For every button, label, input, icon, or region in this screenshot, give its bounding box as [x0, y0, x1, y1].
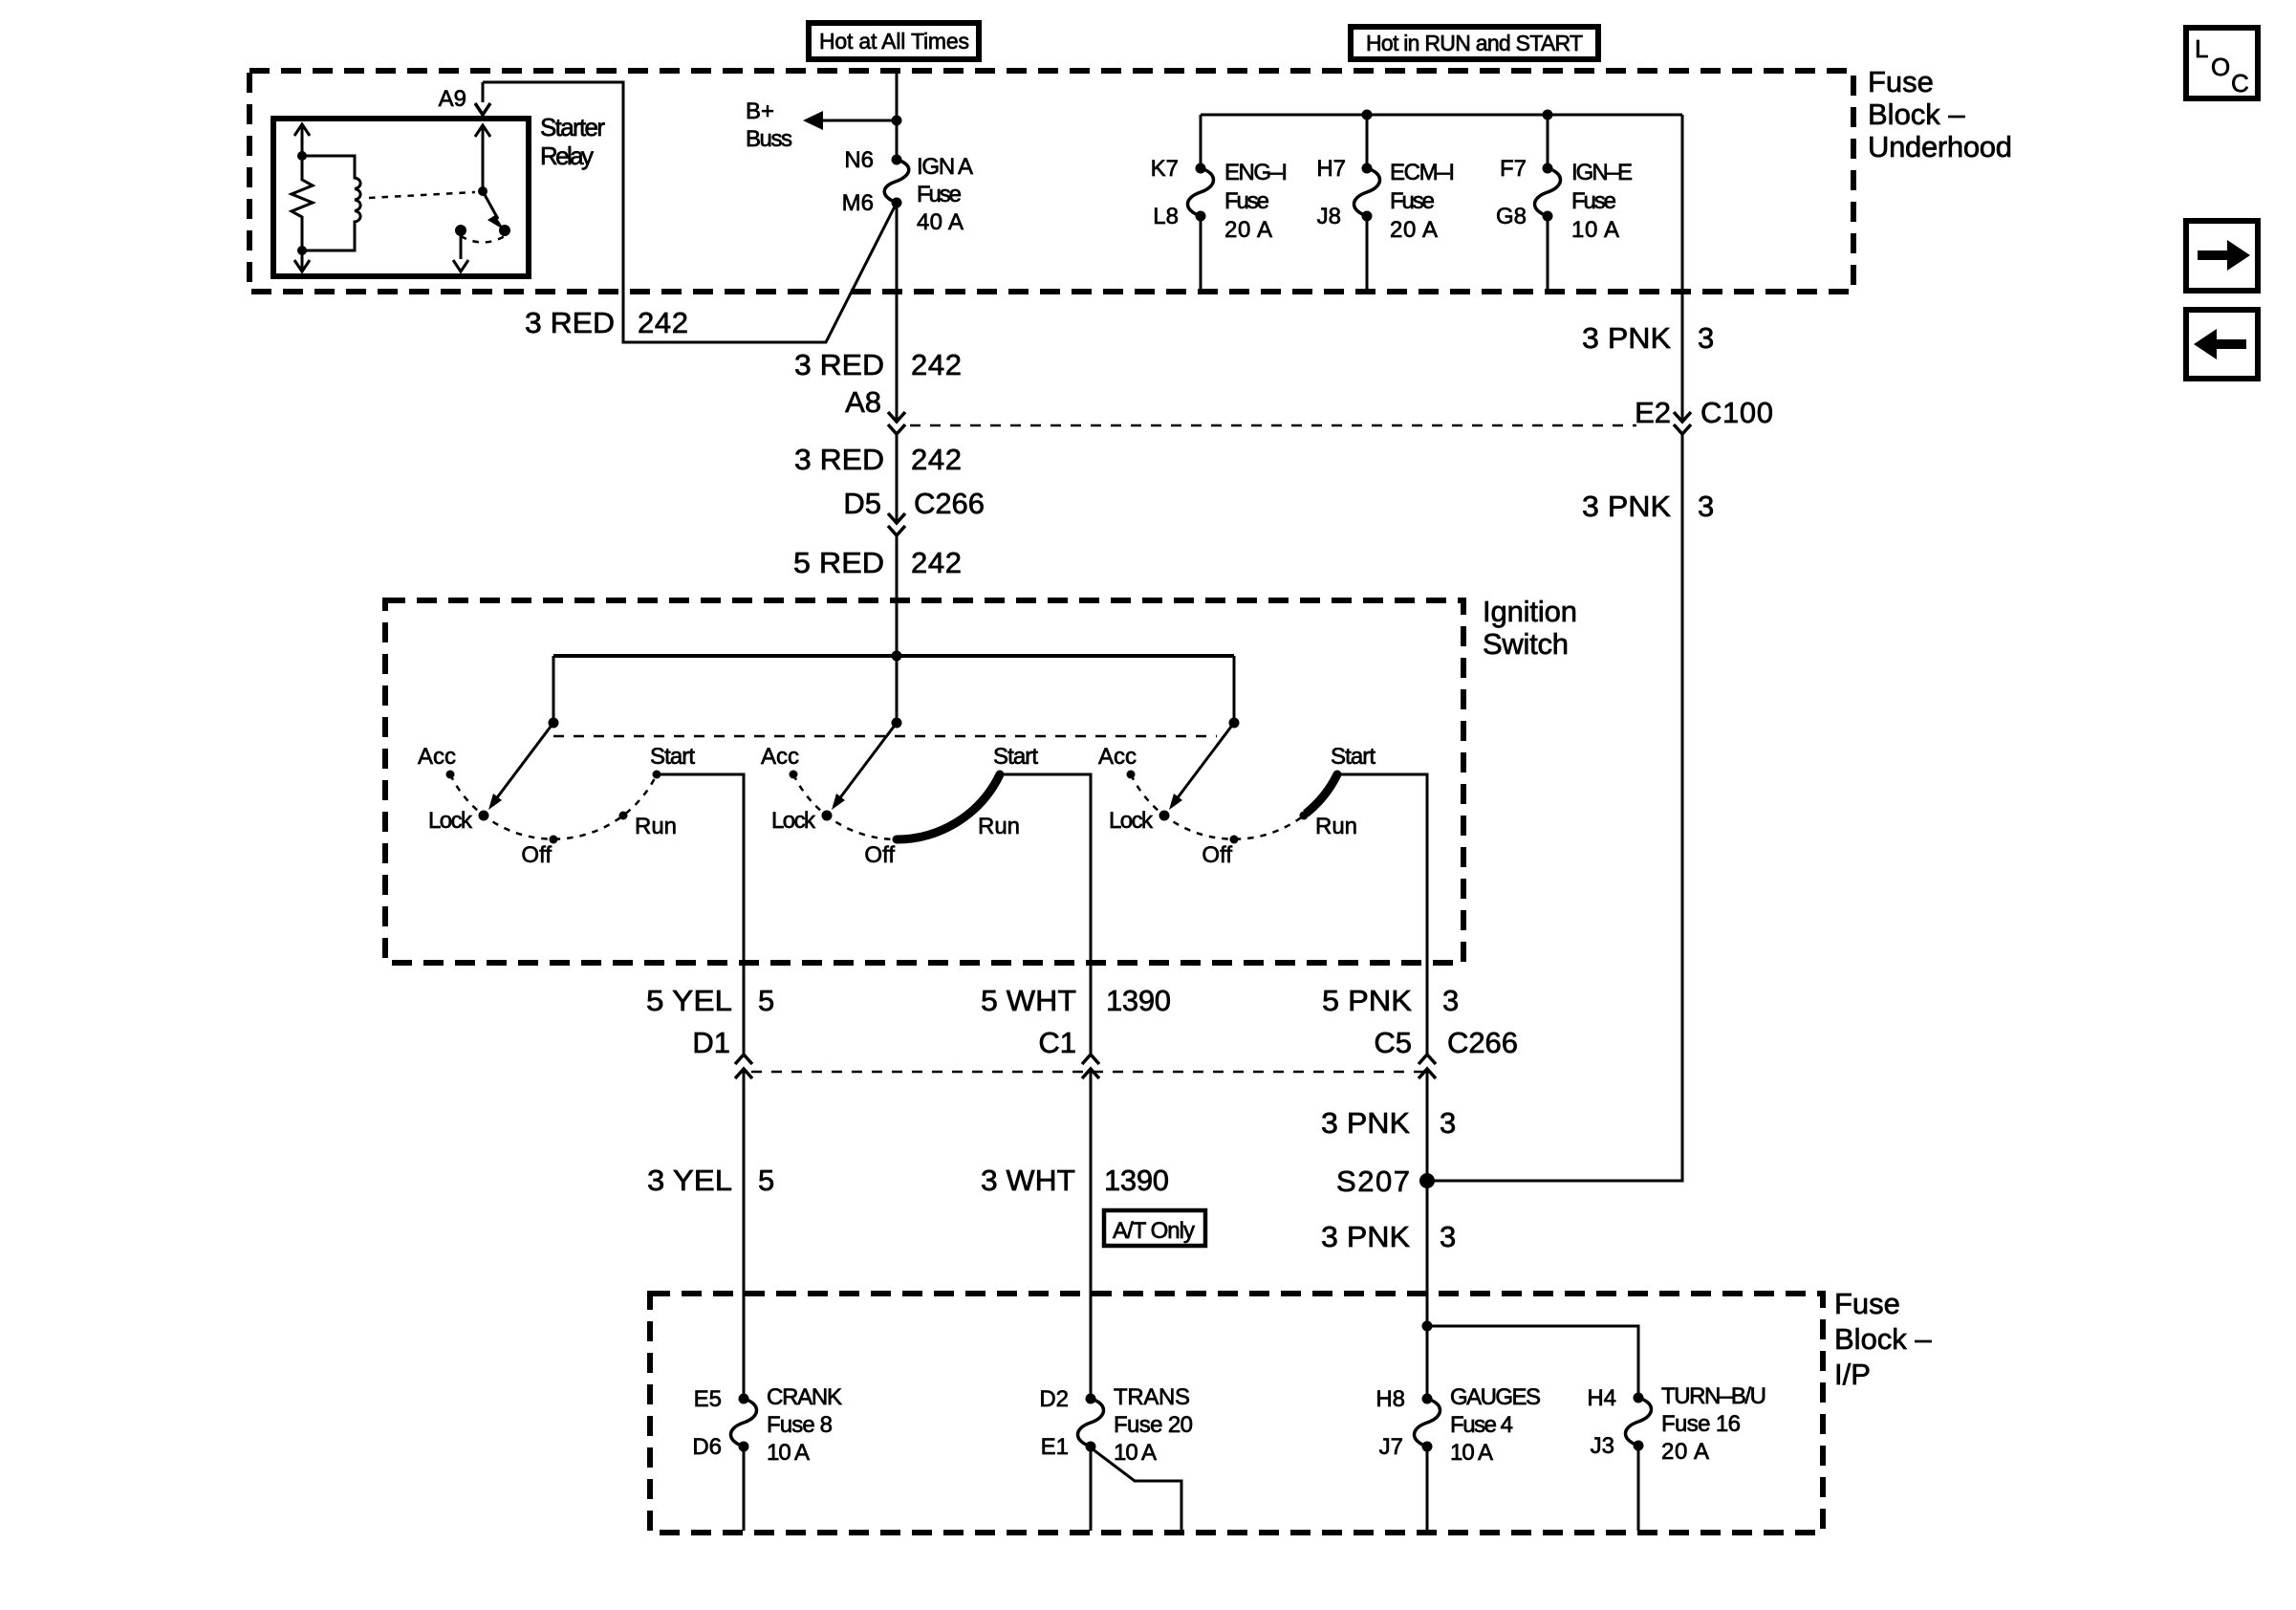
svg-text:3 RED: 3 RED: [525, 306, 615, 339]
svg-text:J8: J8: [1317, 204, 1341, 229]
fuse TURN-B/U Fuse 16: [1587, 1383, 1766, 1531]
wire C1 to trans fuse: [1090, 1069, 1093, 1399]
svg-text:C266: C266: [914, 487, 985, 520]
svg-text:N6: N6: [844, 147, 874, 173]
svg-text:TRANS: TRANS: [1114, 1384, 1190, 1410]
switch 3 closed contact thick arc: [1306, 774, 1337, 814]
svg-text:Fuse: Fuse: [1834, 1287, 1900, 1320]
relay actuation dashed link: [369, 192, 475, 198]
wire into ignition switch: [896, 535, 899, 656]
node top: [297, 151, 307, 161]
wire label 3 PNK 3: [1321, 1220, 1456, 1253]
svg-text:Start: Start: [650, 744, 695, 770]
svg-text:3 RED: 3 RED: [794, 348, 884, 381]
svg-text:20 A: 20 A: [1224, 217, 1272, 243]
wire label 3 PNK 3: [1582, 490, 1714, 523]
switch 2 contacts: [761, 744, 1038, 868]
switch pole 1 pivot: [549, 718, 559, 729]
right arrow page icon: [2186, 221, 2258, 291]
node bus H7: [1362, 110, 1373, 120]
svg-text:M6: M6: [842, 190, 874, 216]
fuse TRANS Fuse 20: [1039, 1384, 1193, 1531]
svg-text:B+: B+: [746, 98, 774, 124]
bus drop left: [552, 656, 555, 723]
svg-text:IGN–E: IGN–E: [1571, 160, 1633, 185]
svg-text:5: 5: [758, 984, 774, 1017]
svg-text:1390: 1390: [1104, 1164, 1169, 1197]
node bus center: [892, 651, 902, 662]
switch 2 closed contact thick arc: [897, 774, 1000, 839]
svg-text:CRANK: CRANK: [767, 1384, 842, 1410]
svg-text:20 A: 20 A: [1390, 217, 1438, 243]
svg-text:5 WHT: 5 WHT: [981, 984, 1076, 1017]
svg-text:Off: Off: [864, 842, 895, 868]
svg-text:Fuse 8: Fuse 8: [767, 1412, 833, 1438]
relay coil left lead with arrows: [294, 124, 310, 272]
wire label 5 YEL 5: [646, 984, 774, 1017]
bus drop center: [896, 656, 899, 723]
wire label 3 PNK 3: [1321, 1106, 1456, 1140]
svg-text:A9: A9: [439, 86, 466, 112]
svg-text:C: C: [2231, 69, 2249, 98]
LOC page icon: [2186, 28, 2258, 98]
svg-text:Acc: Acc: [761, 744, 799, 770]
fuse CRANK Fuse 8: [692, 1384, 842, 1531]
svg-text:F7: F7: [1500, 156, 1527, 182]
switch pole 2 pivot: [892, 718, 902, 729]
svg-text:D2: D2: [1039, 1386, 1069, 1412]
svg-text:242: 242: [911, 443, 962, 476]
svg-text:Fuse: Fuse: [1868, 65, 1934, 98]
svg-text:3: 3: [1440, 1106, 1456, 1140]
svg-text:242: 242: [911, 546, 962, 579]
svg-text:Underhood: Underhood: [1868, 130, 2012, 163]
switch 3 start wire: [1337, 774, 1427, 1055]
svg-text:A8: A8: [845, 385, 881, 419]
connector C100 A8: [845, 385, 905, 434]
wire A9 to splice: [483, 82, 896, 342]
svg-text:C100: C100: [1700, 396, 1773, 429]
wire label 3 RED 242 (A9 circuit): [525, 306, 688, 339]
svg-text:242: 242: [911, 348, 962, 381]
svg-text:3 YEL: 3 YEL: [647, 1164, 732, 1197]
connector C266 D1: [692, 1026, 752, 1078]
fuse ENG-I 20 A: [1151, 115, 1288, 290]
B+ Buss arrow: [746, 98, 902, 152]
svg-text:S207: S207: [1336, 1164, 1410, 1198]
svg-text:Hot in RUN and START: Hot in RUN and START: [1366, 31, 1583, 55]
wire gauges feed: [1422, 1321, 1433, 1332]
wire to turn fuse: [1427, 1326, 1638, 1398]
svg-text:242: 242: [638, 306, 688, 339]
svg-text:10 A: 10 A: [1571, 217, 1619, 243]
svg-text:Ignition: Ignition: [1483, 595, 1577, 628]
switch pole 2 arm arrow: [832, 723, 897, 810]
svg-text:Off: Off: [1202, 842, 1232, 868]
svg-text:10 A: 10 A: [1114, 1440, 1157, 1466]
svg-text:3 RED: 3 RED: [794, 443, 884, 476]
dashed gang link: [553, 735, 1217, 738]
svg-text:C1: C1: [1038, 1026, 1076, 1059]
wire label 3 PNK 3: [1582, 321, 1714, 355]
fuse IGN-E 10 A: [1496, 115, 1633, 290]
svg-text:Start: Start: [993, 744, 1038, 770]
svg-text:I/P: I/P: [1834, 1358, 1871, 1391]
switch 1 contacts: [418, 744, 695, 868]
svg-text:3: 3: [1698, 321, 1714, 355]
Fuse Block Underhood dashed box: [249, 71, 1853, 292]
svg-text:J7: J7: [1379, 1434, 1403, 1460]
svg-text:H7: H7: [1316, 156, 1346, 182]
svg-text:D1: D1: [692, 1026, 730, 1059]
wire C5 to splice S207: [1426, 1069, 1429, 1399]
switch 3 dashed travel arc: [1131, 774, 1304, 839]
svg-text:Fuse 16: Fuse 16: [1661, 1411, 1741, 1437]
relay common contact: [453, 225, 505, 272]
node bus F7: [1543, 110, 1553, 120]
label Starter Relay: [540, 113, 605, 170]
switch 3 contacts: [1098, 744, 1375, 868]
switch 2 dashed travel arc: [793, 774, 897, 839]
svg-text:3 PNK: 3 PNK: [1582, 321, 1671, 355]
svg-text:20 A: 20 A: [1661, 1439, 1709, 1465]
wire 3 PNK right side down: [1681, 115, 1684, 421]
svg-text:Fuse 20: Fuse 20: [1114, 1412, 1193, 1438]
svg-text:Fuse: Fuse: [1571, 188, 1616, 214]
svg-text:Fuse: Fuse: [917, 182, 962, 207]
dashed connector line C100: [910, 424, 1636, 427]
wire below A8: [896, 434, 899, 523]
svg-text:Start: Start: [1331, 744, 1375, 770]
svg-text:Block –: Block –: [1868, 98, 1965, 131]
wire trans fuse jog: [1092, 1448, 1181, 1531]
fuse ECM-I 20 A: [1316, 115, 1455, 290]
svg-text:TURN–B/U: TURN–B/U: [1661, 1383, 1766, 1409]
svg-text:J3: J3: [1591, 1433, 1614, 1459]
relay switch arm: [475, 125, 510, 236]
svg-text:L8: L8: [1153, 204, 1179, 229]
relay coil: [302, 156, 360, 250]
svg-text:Buss: Buss: [746, 126, 792, 152]
svg-text:10 A: 10 A: [767, 1440, 810, 1466]
svg-text:3 PNK: 3 PNK: [1321, 1220, 1410, 1253]
svg-text:E1: E1: [1041, 1434, 1069, 1460]
svg-text:3: 3: [1698, 490, 1714, 523]
svg-text:Run: Run: [635, 814, 677, 839]
svg-text:Lock: Lock: [1109, 808, 1154, 834]
svg-text:E5: E5: [694, 1386, 722, 1412]
svg-text:1390: 1390: [1106, 984, 1171, 1017]
svg-text:40 A: 40 A: [917, 209, 964, 235]
connector C266 C5: [1374, 1026, 1518, 1078]
svg-text:5 RED: 5 RED: [793, 546, 884, 579]
switch 1 start wire: [657, 774, 744, 1055]
Ignition Switch dashed box: [385, 600, 1463, 963]
splice S207: [1336, 1164, 1435, 1198]
wire label 5 WHT 1390: [981, 984, 1171, 1017]
switch 1 dashed travel arc: [450, 774, 657, 839]
svg-text:3 WHT: 3 WHT: [981, 1164, 1075, 1197]
svg-text:Lock: Lock: [428, 808, 473, 834]
svg-text:Acc: Acc: [418, 744, 456, 770]
relay resistor: [292, 156, 313, 250]
label Fuse Block - Underhood: [1868, 65, 2012, 163]
svg-text:ECM–I: ECM–I: [1390, 160, 1455, 185]
svg-text:Acc: Acc: [1098, 744, 1137, 770]
switch 2 start wire: [1000, 774, 1091, 1055]
svg-text:D5: D5: [843, 487, 881, 520]
wire label 3 RED 242: [794, 348, 962, 381]
main wire IGN A to ignition switch: [896, 203, 899, 421]
svg-text:H4: H4: [1587, 1385, 1616, 1411]
svg-text:Fuse: Fuse: [1390, 188, 1435, 214]
bus hot in run and start: [1201, 114, 1682, 117]
svg-text:Off: Off: [521, 842, 552, 868]
ignition switch feed bus: [553, 654, 1234, 658]
svg-text:Hot at All Times: Hot at All Times: [819, 29, 969, 54]
svg-text:3: 3: [1440, 1220, 1456, 1253]
svg-text:C266: C266: [1447, 1026, 1518, 1059]
fuse GAUGES Fuse 4: [1375, 1384, 1541, 1531]
banner box Hot at All Times: [809, 23, 979, 59]
svg-text:ENG–I: ENG–I: [1224, 160, 1288, 185]
svg-text:Run: Run: [978, 814, 1020, 839]
svg-text:K7: K7: [1151, 156, 1179, 182]
Starter Relay box: [273, 119, 529, 276]
svg-text:3 PNK: 3 PNK: [1321, 1106, 1410, 1140]
svg-text:C5: C5: [1374, 1026, 1412, 1059]
svg-text:Fuse 4: Fuse 4: [1450, 1412, 1513, 1438]
switch pole 1 arm arrow: [488, 723, 553, 810]
switch pole 3 pivot: [1229, 718, 1240, 729]
node bottom: [297, 246, 307, 255]
banner box Hot in RUN and START: [1351, 27, 1598, 59]
svg-text:L: L: [2195, 34, 2208, 63]
svg-text:G8: G8: [1496, 204, 1527, 229]
svg-text:A/T Only: A/T Only: [1113, 1218, 1195, 1244]
svg-text:Lock: Lock: [771, 808, 816, 834]
A/T Only tag: [1104, 1210, 1205, 1246]
connector C266 C1: [1038, 1026, 1099, 1078]
bus drop right: [1233, 656, 1236, 723]
svg-text:D6: D6: [692, 1434, 722, 1460]
wire label 3 WHT 1390: [981, 1164, 1169, 1197]
terminal A9: [439, 86, 490, 115]
dashed connector line C266: [751, 1071, 1434, 1074]
wire D1 to crank fuse: [743, 1069, 746, 1399]
svg-text:H8: H8: [1375, 1386, 1405, 1412]
svg-text:IGN A: IGN A: [917, 154, 973, 180]
fuse IGN A 40 A: [842, 147, 973, 235]
svg-text:Block –: Block –: [1834, 1322, 1932, 1356]
svg-text:Starter: Starter: [540, 113, 605, 141]
Fuse Block I/P dashed box: [650, 1294, 1823, 1533]
label Ignition Switch: [1483, 595, 1577, 661]
connector C100 E2: [1635, 396, 1773, 434]
svg-text:5 PNK: 5 PNK: [1322, 984, 1412, 1017]
wire label 5 RED 242: [793, 546, 962, 579]
svg-text:O: O: [2211, 53, 2230, 81]
svg-text:5 YEL: 5 YEL: [646, 984, 732, 1017]
svg-text:GAUGES: GAUGES: [1450, 1384, 1541, 1410]
left arrow page icon: [2186, 310, 2258, 379]
svg-text:Run: Run: [1315, 814, 1357, 839]
wire 3 PNK below C100: [1427, 434, 1682, 1181]
wire label 3 YEL 5: [647, 1164, 774, 1197]
svg-text:Relay: Relay: [540, 141, 594, 170]
label Fuse Block - I/P: [1834, 1287, 1932, 1391]
svg-text:5: 5: [758, 1164, 774, 1197]
svg-text:3: 3: [1442, 984, 1459, 1017]
svg-text:E2: E2: [1635, 396, 1671, 429]
svg-text:3 PNK: 3 PNK: [1582, 490, 1671, 523]
svg-text:Fuse: Fuse: [1224, 188, 1269, 214]
wire label 5 PNK 3: [1322, 984, 1459, 1017]
switch pole 3 arm arrow: [1169, 723, 1234, 810]
wire label 3 RED 242: [794, 443, 962, 476]
svg-text:10 A: 10 A: [1450, 1440, 1493, 1466]
connector C266 D5: [843, 487, 985, 535]
svg-text:Switch: Switch: [1483, 627, 1569, 661]
wire hot at all times vertical: [896, 71, 899, 160]
